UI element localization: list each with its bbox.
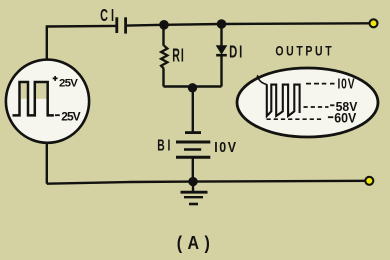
wire top rail left segment bbox=[47, 26, 116, 59]
dashed level -10V bbox=[306, 83, 335, 85]
svg-text:I0V: I0V bbox=[214, 139, 237, 155]
wire bottom rail bbox=[47, 181, 369, 184]
node junction middle bbox=[188, 83, 197, 92]
wire middle rail bbox=[164, 85, 222, 87]
terminal top right bbox=[370, 19, 378, 27]
dashed level -58V bbox=[304, 106, 329, 108]
node junction bottom bbox=[188, 177, 197, 186]
caption (A) bbox=[177, 232, 215, 253]
svg-text:60V: 60V bbox=[334, 110, 356, 126]
label -60V bbox=[328, 116, 333, 118]
svg-text:25V: 25V bbox=[61, 109, 80, 123]
diode D1 bbox=[216, 43, 244, 62]
wire battery branch bbox=[192, 87, 194, 182]
svg-text:BI: BI bbox=[157, 136, 173, 154]
svg-text:25V: 25V bbox=[59, 77, 78, 89]
node junction top right bbox=[217, 19, 227, 29]
resistor R1 bbox=[161, 46, 185, 69]
wire top rail right segment bbox=[127, 23, 369, 25]
svg-text:(A): (A) bbox=[177, 232, 215, 253]
dashed level -60V bbox=[267, 118, 323, 120]
ground bbox=[181, 182, 208, 204]
label -10V bbox=[338, 76, 356, 92]
svg-text:CI: CI bbox=[100, 6, 117, 25]
svg-text:OUTPUT: OUTPUT bbox=[275, 43, 334, 59]
wire D1 branch bbox=[220, 24, 222, 87]
output waveform bbox=[256, 75, 300, 116]
label -58V bbox=[330, 104, 334, 106]
wire R1 branch bbox=[162, 25, 164, 87]
svg-text:RI: RI bbox=[172, 46, 185, 67]
wire left vertical below source bbox=[46, 142, 48, 184]
output scope ellipse bbox=[237, 68, 378, 137]
battery B1 bbox=[157, 133, 237, 158]
square-wave source bbox=[6, 60, 89, 143]
svg-text:I0V: I0V bbox=[338, 76, 356, 92]
node junction top left bbox=[159, 20, 169, 30]
OUTPUT label bbox=[275, 43, 334, 59]
capacitor C1 bbox=[100, 6, 126, 33]
svg-text:DI: DI bbox=[229, 43, 244, 62]
terminal bottom right bbox=[365, 177, 373, 185]
